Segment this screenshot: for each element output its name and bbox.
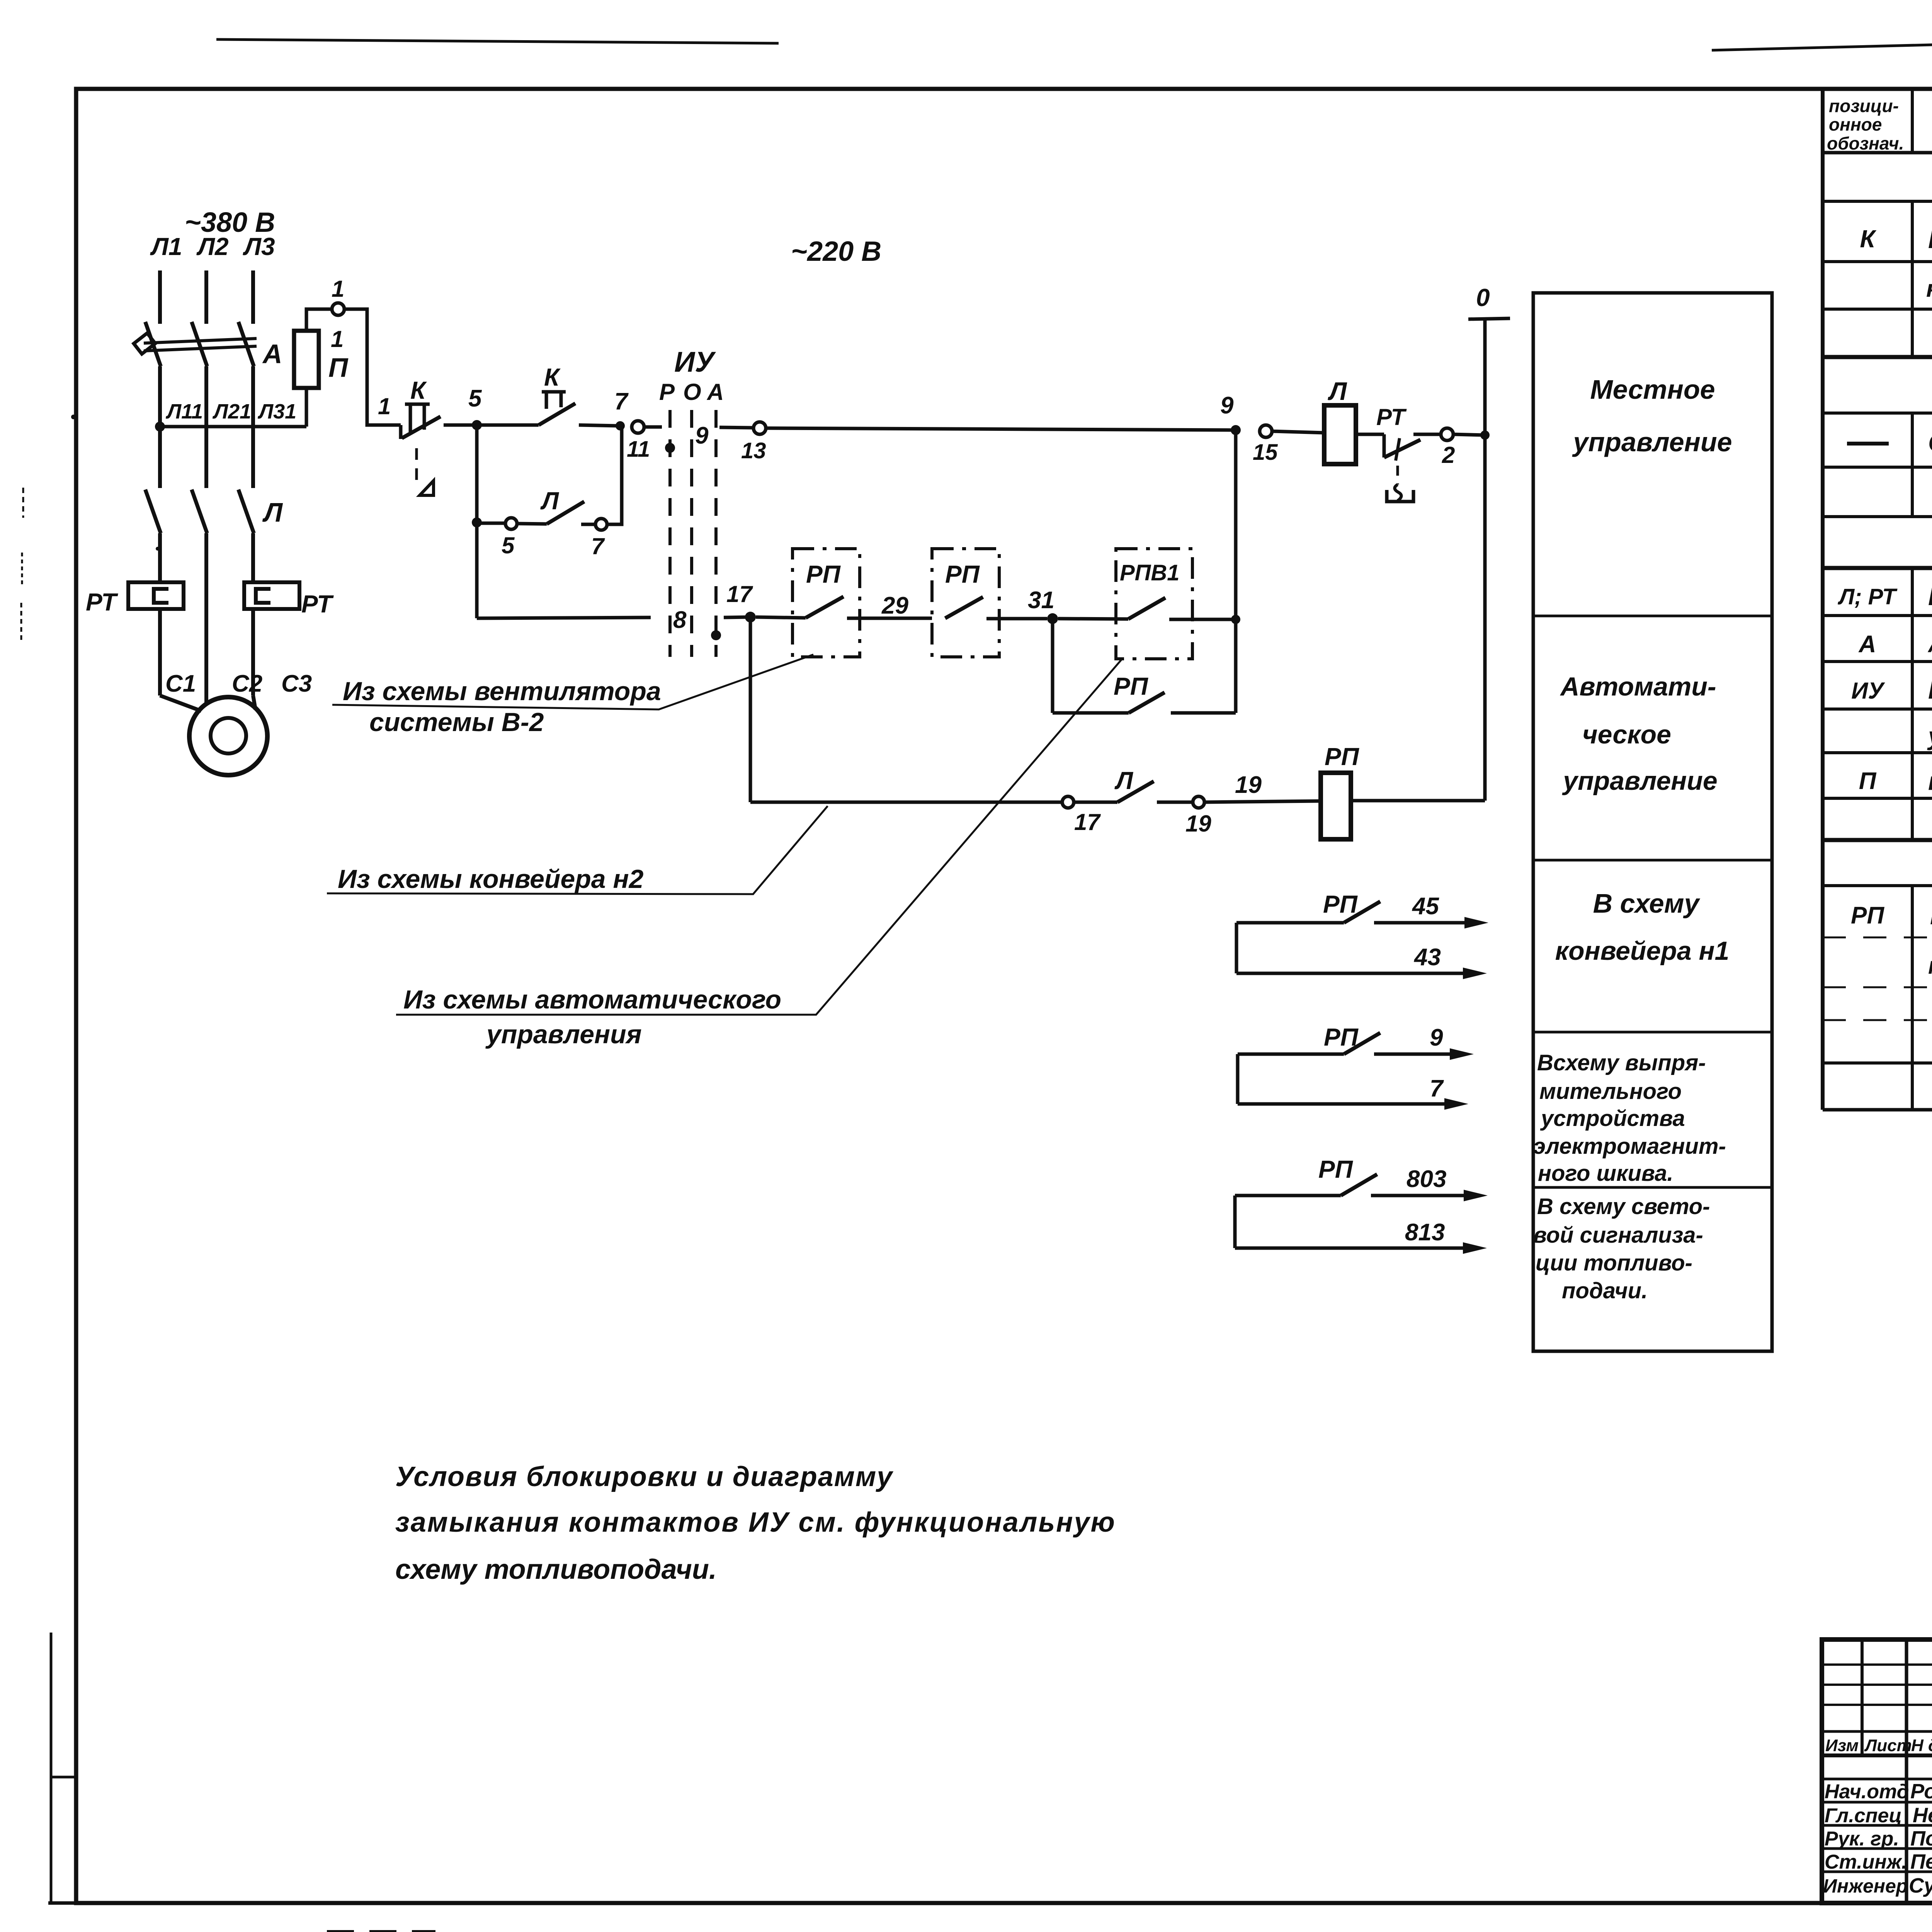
parts table row line y=800 [1823,308,1932,311]
wire blade to circle 19 [1157,801,1193,804]
svg-text:Рохбойм: Рохбойм [1910,1780,1932,1803]
node 5 junction [472,420,482,430]
svg-text:Суворова: Суворова [1909,1874,1932,1897]
wire circle17 to Л contact [1074,801,1117,804]
svg-text:обознач.: обознач. [1827,133,1904,153]
switch ИУ contact dot rung2 position А [711,630,721,640]
svg-text:Л: Л [1114,767,1134,794]
title block left top rows [1822,1663,1932,1666]
wire group2 arrow 7 [1238,1102,1444,1106]
wire group1 top [1236,921,1344,925]
svg-text:Пускатель: Пускатель [1930,901,1932,930]
parts table row line y=521 [1823,200,1932,203]
circuit breaker А linkage bar [144,338,257,343]
circuit breaker А pole 2 blade [192,322,207,366]
parts table row line y=1337 [1823,515,1932,518]
svg-text:РПВ1: РПВ1 [1120,560,1180,585]
parts table col divider pos 2292-2872 [1911,886,1914,1110]
svg-text:Л3: Л3 [243,233,275,260]
svg-text:Изм: Изм [1825,1736,1859,1755]
wire ИУ to circle 13 [719,427,753,428]
title block left columns [1861,1639,1864,1755]
circuit breaker А handle [134,333,155,354]
svg-text:19: 19 [1235,772,1262,798]
table row Станция управления [1847,442,1889,446]
parts table row line y=1209 [1823,466,1932,469]
parts table col divider pos 1069-1337 [1911,413,1914,517]
wire group3 top [1235,1194,1341,1197]
pushbutton К stop mushroom symbol [420,481,434,495]
svg-text:13: 13 [741,438,766,463]
parts table row line y=1948 [1823,751,1932,754]
parts table row line y=2292 [1823,884,1932,887]
wire bypass РП row [1053,711,1129,715]
svg-text:ИУ: ИУ [674,346,716,378]
wire phase 3 below breaker [251,366,255,488]
svg-text:РП: РП [1851,902,1884,929]
svg-text:электромагнит-: электромагнит- [1533,1134,1726,1159]
wire group3 left drop [1233,1196,1237,1248]
fuse П body [294,331,319,388]
motor М stator circle [189,697,267,775]
wire РП coil to 0 bus [1351,799,1485,803]
svg-text:управление: управление [1562,766,1717,796]
svg-text:Автоматический выключатель: Автоматический выключатель [1927,632,1932,657]
svg-text:А: А [1858,631,1876,658]
svg-text:Перова: Перова [1910,1850,1932,1873]
node 1 terminal circle [332,303,344,315]
svg-text:1: 1 [378,393,391,419]
terminal circle 5 bypass [505,518,517,529]
svg-text:Инженер: Инженер [1823,1875,1908,1897]
svg-text:43: 43 [1413,944,1441,971]
wire node 1 to rung [344,309,401,425]
parts table section line y=924 [1823,355,1932,359]
svg-text:позици-: позици- [1829,96,1899,116]
wire coil Л to РТ contact [1356,433,1384,436]
wire rung3 left [750,801,1062,804]
svg-text:подачи.: подачи. [1562,1278,1648,1303]
svg-text:П: П [1859,768,1877,794]
parts table row line y=677 [1823,260,1932,263]
circuit breaker А pole 1 blade [145,322,161,366]
svg-text:5: 5 [468,385,482,412]
svg-text:схему топливоподачи.: схему топливоподачи. [395,1554,717,1585]
svg-text:РТ: РТ [1376,404,1407,430]
svg-text:системы В-2: системы В-2 [369,707,544,737]
contactor Л pole 2 blade [192,490,207,533]
wire node17 down [749,617,752,802]
junction on 0 bus [1480,430,1490,440]
svg-text:7: 7 [591,533,605,559]
svg-text:В схему свето-: В схему свето- [1537,1194,1710,1219]
wire group1 left drop [1235,923,1238,973]
svg-text:мительного: мительного [1539,1079,1682,1104]
wire node5 down to rung2 [475,522,479,618]
relay contact РП group3 blade [1341,1174,1377,1196]
thermal relay manual reset symbol [1395,485,1401,501]
node 17 junction [745,612,756,622]
wire rung2 left segment [477,617,651,618]
wire blade to circle 7 [581,523,595,526]
svg-text:Из схемы конвейера н2: Из схемы конвейера н2 [338,864,644,894]
svg-text:ческое: ческое [1582,720,1671,749]
svg-text:Местное: Местное [1590,374,1715,405]
wire group3 arrow 813 [1235,1247,1463,1250]
svg-text:РП: РП [945,560,980,588]
svg-text:5: 5 [502,532,515,558]
wire phase 1 below breaker [158,366,162,488]
svg-text:С1: С1 [165,670,196,697]
pushbutton К stop (NC) blade [399,425,403,439]
svg-text:С2: С2 [232,670,262,697]
relay contact РП 2 enclosure (dash-dot) [932,549,999,657]
wire node5 to К start [477,423,539,427]
wire node5 down to self-hold [475,425,479,522]
svg-text:Л: Л [262,497,283,527]
svg-text:8: 8 [673,607,687,633]
pushbutton К start (NO) blade [539,403,575,425]
svg-text:Л31: Л31 [257,400,296,423]
svg-text:управление: управление [1572,427,1732,457]
wire phase 1 to motor [158,609,162,696]
contactor coil Л [1324,405,1356,464]
svg-text:45: 45 [1412,893,1439,920]
svg-text:Условия блокировки и диагра: Условия блокировки и диаграмму [395,1461,894,1492]
wire riser node9 to bypass [1234,430,1238,713]
svg-text:Немец: Немец [1913,1804,1932,1827]
left margin marks [22,488,24,518]
svg-text:А: А [706,379,724,405]
svg-text:Л2: Л2 [196,233,229,260]
terminal circle 11 [632,421,644,433]
wire fuse bottom to tap [305,388,308,427]
node 9 junction [1231,425,1241,435]
svg-text:К: К [544,363,561,391]
circuit breaker А pole 3 blade [238,322,254,366]
svg-text:803: 803 [1406,1166,1446,1192]
svg-text:Переключатель: Переключатель [1928,675,1932,704]
svg-text:813: 813 [1405,1219,1445,1246]
wire node17 to РП1 [756,617,806,618]
title block signature rows [1822,1778,1932,1781]
wire group3 arrow 803 [1371,1194,1464,1197]
sheet torn top edge [216,39,779,43]
parts table bottom [1823,1108,1932,1112]
svg-text:магнитный ПМЕ-111: магнитный ПМЕ-111 [1928,952,1932,979]
switch ИУ contact dot rung1 position Р [665,443,675,453]
svg-text:РП: РП [806,560,841,588]
svg-text:О: О [683,379,701,405]
parts table row line y=1712 [1823,660,1932,663]
parts table col divider pos 1470-2174 [1911,568,1914,840]
svg-text:С3: С3 [281,670,312,697]
svg-text:Р: Р [659,379,675,405]
parts table section line y=1470 [1823,566,1932,570]
switch ИУ dashed line О [690,410,693,657]
svg-text:31: 31 [1028,587,1054,614]
junction on phase 1 tap [155,422,165,432]
descriptor divider 4 [1533,1186,1772,1189]
svg-text:9: 9 [1220,392,1234,419]
svg-text:П: П [328,352,349,383]
svg-text:онное: онное [1829,114,1882,134]
svg-text:Из схемы вентилятора: Из схемы вентилятора [343,677,661,706]
svg-text:Л: Л [540,487,560,515]
svg-text:Гл.спец: Гл.спец [1825,1804,1902,1827]
svg-text:Станция управления: Станция управления [1928,428,1932,457]
svg-text:А: А [262,339,282,369]
wire tap to control circuit [160,425,306,429]
switch ИУ dashed line Р [668,410,672,657]
wire node31 to РПВ1 [1058,619,1128,619]
wire phase 3 below contactor [251,533,255,582]
svg-text:Л11: Л11 [165,400,203,423]
wire РП1 to РП2 [847,617,932,620]
wire 0 bus vertical [1483,319,1487,801]
wire circle 2 to 0 bus [1453,434,1485,435]
svg-text:9: 9 [695,422,709,449]
switch ИУ dashed line А [714,410,718,657]
descriptor column box [1533,293,1772,1351]
svg-text:Нач.отд: Нач.отд [1825,1781,1909,1803]
relay contact РП 1 enclosure (dash-dot) [793,549,860,657]
descriptor divider 1 [1533,615,1772,617]
wire circle 15 to coil Л [1272,431,1324,433]
thermal relay РТ heater element phase 3 [244,582,299,609]
svg-text:предохранитель: предохранитель [1928,767,1932,795]
terminal circle 13 [753,422,766,434]
wire phase Л2 incoming [204,270,208,324]
parts table row line y=1069 [1823,412,1932,415]
parts table dashed row lines [1823,937,1932,939]
wire fuse top to node 1 [306,309,332,331]
wire rung2 after ИУ [724,617,748,617]
node 0 bus head tick [1468,318,1510,319]
relay contact РПВ1 blade [1128,598,1165,619]
svg-text:РП: РП [1325,743,1360,770]
svg-text:Н докумен.: Н докумен. [1911,1736,1932,1755]
svg-text:Рук. гр.: Рук. гр. [1825,1828,1899,1850]
contactor Л auxiliary NO blade [547,502,584,524]
relay contact РП self-hold blade [1129,692,1165,713]
parts table header row line [1823,151,1932,155]
svg-text:17: 17 [1074,809,1101,835]
svg-text:2: 2 [1442,442,1455,468]
svg-text:РП: РП [1114,672,1149,700]
pushbutton К stop actuator [405,403,430,406]
wire group1 arrow 43 [1236,972,1463,975]
thermal relay РТ heater element phase 1 [128,582,184,609]
wire circle5 to Л contact [517,524,547,524]
parts table col divider pos 521-924 [1911,201,1914,357]
title block outer [1822,1639,1932,1903]
pushbutton К stop mushroom link (dashed) [415,448,418,481]
wire to node 5 [444,423,474,427]
contactor Л auxiliary 2 blade [1117,781,1154,802]
svg-text:К: К [1860,225,1876,253]
title block изм row line [1822,1753,1932,1757]
thermal relay РТ NC contact [1383,434,1386,457]
terminal circle 19 [1193,796,1204,808]
junction rung2 riser [1231,615,1240,624]
parts table row line y=2751 [1823,1061,1932,1065]
relay contact РП 2 blade [945,597,983,618]
junction self-hold row [472,517,482,527]
svg-text:устройства: устройства [1540,1106,1685,1131]
svg-text:ции топливо-: ции топливо- [1536,1250,1692,1276]
wire circle 11 to ИУ [644,425,662,429]
svg-text:К: К [410,376,427,404]
svg-text:В схему: В схему [1593,888,1701,918]
wire РПВ1 to riser [1169,618,1236,621]
leader line to rung3 [327,806,828,894]
svg-text:кнопочный КУ-92-ВЗТЗ: кнопочный КУ-92-ВЗТЗ [1926,276,1932,302]
wire circle19 to РП coil [1204,801,1321,802]
contactor Л pole 3 blade [238,490,254,533]
wire circle 13 to node 9 [766,428,1233,430]
svg-text:ИУ: ИУ [1851,678,1885,704]
sheet torn bottom edge marks [327,1930,435,1932]
wire group2 arrow 9 [1374,1053,1450,1056]
relay contact РПВ1 enclosure (dash-dot) [1116,549,1192,659]
terminal circle 15 [1260,425,1272,437]
relay contact РП group1 blade [1344,901,1380,923]
svg-text:замыкания контактов ИУ см.: замыкания контактов ИУ см. функциональну… [395,1507,1116,1538]
svg-text:Всхему выпря-: Всхему выпря- [1537,1050,1706,1075]
leader line to РПВ1 [396,658,1122,1015]
svg-text:РТ: РТ [301,590,334,618]
parts table row line y=2066 [1823,797,1932,800]
wire bypass to riser [1171,711,1236,715]
wire К start to node 7 [579,425,618,426]
wire РП2 to РПВ1 [986,617,1047,621]
wire phase Л1 incoming [158,270,162,324]
terminal circle 7 bypass [595,519,607,530]
wire РТ contact to circle 2 [1413,433,1441,436]
motor М rotor circle [211,718,246,753]
relay coil РП [1321,773,1351,839]
svg-text:17: 17 [726,581,753,607]
svg-text:Автомати-: Автомати- [1560,672,1716,701]
node 31 junction [1047,613,1058,624]
svg-text:Пускатель магнитный: Пускатель магнитный [1928,582,1932,611]
svg-text:Ст.инж.: Ст.инж. [1825,1851,1907,1873]
svg-text:1: 1 [331,326,344,352]
svg-text:Из схемы автоматического: Из схемы автоматического [403,985,781,1014]
wire phase 3 to motor [251,609,255,696]
svg-text:9: 9 [1430,1024,1443,1051]
relay contact РП 1 blade [806,597,844,618]
leader line to РП1 [332,655,813,709]
pushbutton К start actuator [542,390,566,394]
svg-text:~220 В: ~220 В [791,236,881,267]
svg-text:29: 29 [881,592,908,619]
parts table row line y=1593 [1823,614,1932,617]
svg-text:Лист: Лист [1864,1736,1912,1755]
wire phase 1 below contactor [158,533,162,582]
node 7 junction [616,421,625,430]
descriptor divider 2 [1533,859,1772,862]
contactor Л pole 1 blade [145,490,161,533]
svg-text:вой сигнализа-: вой сигнализа- [1533,1223,1703,1248]
svg-text:0: 0 [1476,284,1490,311]
wire group2 top [1238,1053,1344,1056]
parts table col divider pos 230-395 [1911,89,1914,153]
svg-text:1: 1 [332,276,344,302]
svg-text:11: 11 [627,437,650,462]
svg-text:ного шкива.: ного шкива. [1538,1161,1673,1186]
wire group1 arrow 45 [1374,921,1464,925]
svg-text:РП: РП [1318,1155,1354,1183]
parts table row line y=1835 [1823,707,1932,711]
descriptor divider 3 [1533,1031,1772,1034]
terminal circle 2 [1441,428,1453,440]
svg-text:Л: Л [1328,377,1347,405]
svg-text:РП: РП [1323,890,1358,918]
left margin registration box [50,1633,53,1903]
wire phase 2 below contactor [204,533,208,704]
parts table section line y=2174 [1823,838,1932,842]
relay contact РП group2 blade [1344,1033,1380,1054]
svg-text:7: 7 [1430,1075,1444,1102]
thermal relay manual reset link (dashed) [1396,466,1399,485]
svg-text:управления: управления [485,1020,642,1049]
wire circle7 up to rung1 [607,427,622,524]
svg-text:7: 7 [614,388,629,415]
svg-text:Пост управления: Пост управления [1928,225,1932,253]
svg-text:15: 15 [1253,440,1278,465]
svg-text:Поляков: Поляков [1910,1827,1932,1850]
svg-text:Л1: Л1 [150,233,182,260]
wire group2 left drop [1236,1054,1240,1104]
svg-text:19: 19 [1185,811,1211,837]
wire to circle 5 [477,522,505,525]
wire node31 down [1051,619,1054,713]
terminal circle 17 [1062,796,1074,808]
parts table outer verticals [1821,89,1825,1110]
svg-text:конвейера н1: конвейера н1 [1555,936,1730,966]
wire phase 2 below breaker [204,366,208,488]
svg-text:Л; РТ: Л; РТ [1837,584,1898,609]
svg-text:Л21: Л21 [212,400,251,423]
svg-text:РТ: РТ [86,588,118,616]
wire phase Л3 incoming [251,270,255,324]
